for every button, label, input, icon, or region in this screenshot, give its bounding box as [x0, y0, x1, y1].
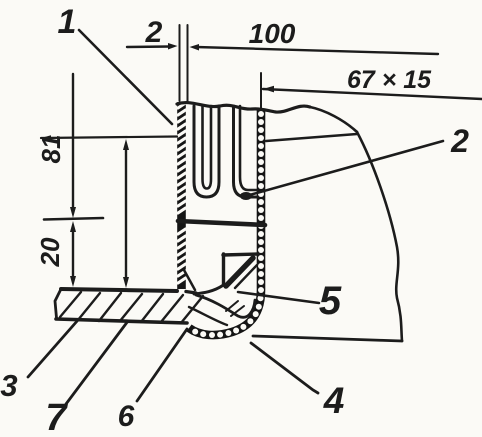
- svg-text:81: 81: [36, 135, 66, 164]
- svg-text:6: 6: [118, 400, 135, 433]
- svg-text:1: 1: [58, 3, 77, 41]
- svg-text:7: 7: [45, 397, 68, 437]
- svg-text:100: 100: [249, 18, 296, 49]
- svg-text:20: 20: [35, 237, 65, 267]
- svg-text:3: 3: [0, 368, 17, 403]
- svg-text:2: 2: [450, 123, 469, 159]
- svg-text:4: 4: [323, 380, 345, 421]
- svg-text:2: 2: [145, 16, 163, 49]
- svg-text:67 × 15: 67 × 15: [347, 66, 432, 94]
- svg-text:5: 5: [319, 279, 342, 323]
